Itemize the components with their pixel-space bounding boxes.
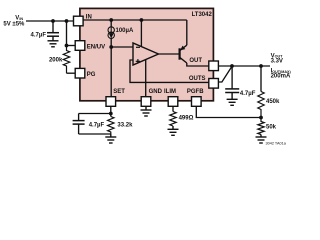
wire op-amp output to base [159,53,180,55]
wire VIN input [26,20,74,22]
svg-text:LT3042: LT3042 [192,12,213,18]
op-amp plus sign [136,60,140,62]
pin PGFB box [192,97,202,107]
resistor R1 200k [63,46,69,74]
capacitor C2 4.7uF SET [78,114,80,121]
ground under 50k [256,135,267,144]
ground under GND pin [141,106,152,116]
wire 200k to PG pin [67,72,76,74]
op-amp minus sign [136,46,140,48]
svg-text:4.7µF: 4.7µF [31,33,47,39]
op-amp U1a error amplifier [133,43,159,65]
node junction SET/Cset [109,112,113,116]
svg-text:33.2k: 33.2k [117,122,133,128]
wire SET to Cset [79,113,111,115]
wire op-amp supply [140,20,142,47]
wire SET pin down [110,106,112,116]
svg-text:450k: 450k [266,99,280,105]
wire to EN/UV pin [67,45,76,47]
pin IN box [74,16,84,26]
wire bottom rail SET network [79,133,111,135]
ground under C1 [48,36,59,47]
wire plus input feedback to OUTS [130,60,209,82]
current source I1 100uA [108,20,114,38]
svg-text:100µA: 100µA [116,28,134,34]
node junction VIN/Cin [51,19,55,23]
svg-text:OUT: OUT [189,58,202,64]
node junction EN/UV [65,44,69,48]
wire minus input [111,46,133,48]
svg-text:EN/UV: EN/UV [87,44,105,50]
wire ILIM pin down [172,106,174,111]
resistor R5 50k [258,118,264,135]
node junction VIN/EN [65,19,69,23]
svg-text:200k: 200k [49,57,63,63]
pin OUT box [209,61,219,71]
wire divider top [260,66,262,92]
node junction OUT/Cout [230,64,234,68]
ground under C3 [227,93,238,106]
wire OUTS sense [218,66,232,82]
capacitor C1 4.7uF input [52,21,54,33]
resistor R2 33.2k [108,117,114,135]
wire internal top rail IN [83,19,187,21]
node junction rail/op-amp supply [140,18,144,22]
pin SET box [106,97,116,107]
pin EN/UV box [75,41,85,51]
ground under SET network [105,134,116,143]
wire current source to SET pin [110,38,112,96]
svg-text:5V ±5%: 5V ±5% [3,22,25,28]
svg-text:ILIM: ILIM [164,89,176,95]
node junction rail/current-source [109,18,113,22]
svg-text:200mA: 200mA [271,73,291,79]
IC U1 LT3042 body [80,8,214,100]
svg-text:4.7µF: 4.7µF [89,122,105,128]
pin ILIM box [168,97,178,107]
node junction divider/PGFB [259,116,263,120]
svg-text:PG: PG [87,72,96,78]
wire op-amp ground reference [145,60,147,97]
svg-text:3.3V: 3.3V [271,58,283,64]
pin GND box [141,97,151,107]
capacitor C3 4.7uF output [231,66,233,89]
wire OUT rail [218,65,270,67]
svg-text:OUTS: OUTS [189,76,206,82]
ground under 499 [168,126,179,135]
node junction minus-input/SET line [109,45,113,49]
svg-text:3042 TA01a: 3042 TA01a [266,142,287,146]
wire PGFB pin down and right [196,106,261,117]
resistor R3 499ohm [170,112,176,127]
svg-text:IN: IN [86,14,92,20]
pin OUTS box [209,79,219,89]
svg-text:GND: GND [149,89,163,95]
svg-text:VIN: VIN [15,16,23,22]
wire VIN to EN/UV [66,21,68,46]
transistor Q1 pass device [179,48,181,59]
node junction OUT/divider [259,64,263,68]
svg-text:499Ω: 499Ω [179,115,194,121]
svg-text:PGFB: PGFB [187,89,204,95]
svg-text:SET: SET [113,89,125,95]
resistor R4 450k [258,92,264,118]
svg-text:4.7µF: 4.7µF [240,91,256,97]
svg-text:50k: 50k [266,125,277,131]
pin PG box [75,68,85,78]
